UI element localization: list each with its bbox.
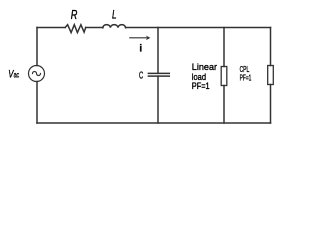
svg-text:PF=1: PF=1 (192, 81, 210, 91)
svg-text:C: C (139, 70, 143, 81)
svg-text:Linear: Linear (192, 62, 217, 72)
svg-text:R: R (71, 8, 78, 22)
svg-text:L: L (112, 8, 117, 22)
svg-text:PF=1: PF=1 (240, 74, 252, 83)
svg-text:i: i (139, 44, 142, 55)
svg-text:ac: ac (14, 71, 20, 80)
